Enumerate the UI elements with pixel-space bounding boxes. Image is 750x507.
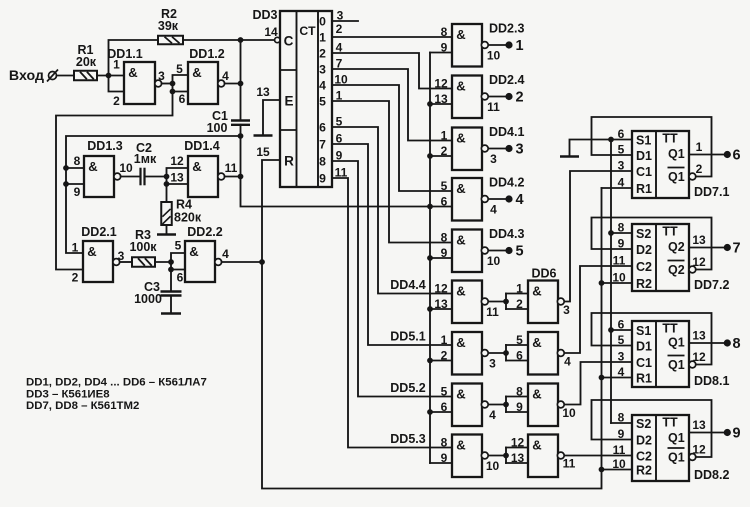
gate DD4.4 xyxy=(452,281,482,324)
svg-text:Q2: Q2 xyxy=(668,263,685,277)
wire DD1.1 out to node B xyxy=(162,83,173,85)
junction D2 pin13 xyxy=(164,181,170,187)
svg-text:&: & xyxy=(532,335,541,350)
svg-text:&: & xyxy=(192,65,201,80)
svg-text:4: 4 xyxy=(222,247,229,261)
ground below C3 xyxy=(161,312,181,315)
wire reset node down to bottom reset bus xyxy=(262,188,602,489)
svg-text:DD5.1: DD5.1 xyxy=(390,330,425,344)
svg-text:3: 3 xyxy=(158,69,165,83)
svg-text:12: 12 xyxy=(692,443,706,457)
svg-text:9: 9 xyxy=(441,451,448,465)
svg-text:6: 6 xyxy=(319,121,326,135)
rail wire junction C down to DD1.4 out xyxy=(240,136,242,177)
svg-text:5: 5 xyxy=(175,239,182,253)
clock bus branch wire xyxy=(430,360,452,362)
svg-text:2: 2 xyxy=(515,90,523,106)
svg-text:D1: D1 xyxy=(636,149,652,163)
wire DD5.2 out to DD6.3 inputs xyxy=(489,404,506,406)
wire DD6.1 output pin3 xyxy=(565,171,632,302)
node B junction pin6 xyxy=(170,89,176,95)
wire junction E down to C3 xyxy=(170,270,172,292)
svg-text:6: 6 xyxy=(732,148,740,164)
svg-text:2: 2 xyxy=(696,162,703,176)
output bubble DD4.1 xyxy=(481,145,488,152)
wire reset node up to DD3 R input xyxy=(262,160,280,262)
svg-text:DD5.3: DD5.3 xyxy=(390,432,425,446)
svg-text:DD2.1: DD2.1 xyxy=(81,225,116,239)
DD3 output 1 wire pin2 to DD2.3 pin8 xyxy=(332,36,452,38)
wire junction C left to DD1.3 input bus xyxy=(66,136,241,253)
svg-text:6: 6 xyxy=(177,271,184,285)
svg-text:DD1.2: DD1.2 xyxy=(189,47,224,61)
svg-text:9: 9 xyxy=(516,400,523,414)
wire C1 to junction C xyxy=(240,125,242,136)
svg-text:&: & xyxy=(456,387,465,402)
svg-text:&: & xyxy=(532,438,541,453)
svg-text:8: 8 xyxy=(732,336,740,352)
DD3 C input bubble pin14 xyxy=(275,37,280,42)
svg-text:9: 9 xyxy=(441,41,448,55)
svg-text:12: 12 xyxy=(170,154,184,168)
R bus junction DD8.1 xyxy=(599,375,605,381)
svg-text:1: 1 xyxy=(696,140,703,154)
clock bus junction xyxy=(427,204,433,210)
wire input to R1 xyxy=(57,75,75,77)
output node 6 xyxy=(724,151,731,158)
DD3 output 3 wire pin7 xyxy=(332,69,452,141)
svg-text:13: 13 xyxy=(692,418,706,432)
node B junction pin3/pin5 xyxy=(170,81,176,87)
wire bus to DD1.3 pin8 xyxy=(66,167,84,169)
output node 7 xyxy=(724,244,731,251)
svg-text:8: 8 xyxy=(516,385,523,399)
gate DD2.4 xyxy=(452,76,482,119)
gate DD6.4 xyxy=(528,435,558,478)
clock bus junction xyxy=(427,101,433,107)
svg-text:&: & xyxy=(456,438,465,453)
svg-text:11: 11 xyxy=(613,254,626,268)
ground below R4 xyxy=(157,233,176,236)
wire junction E to DD2.2 pin6 xyxy=(171,262,185,270)
junction D xyxy=(164,174,170,180)
svg-text:&: & xyxy=(128,65,137,80)
svg-text:11: 11 xyxy=(486,305,499,319)
svg-text:DD6: DD6 xyxy=(531,267,556,281)
wire node B down-left to DD2.1 pin2 bus xyxy=(56,92,173,270)
svg-text:C1: C1 xyxy=(636,356,652,370)
output bubble DD8.2 Qbar xyxy=(689,454,696,461)
wire node A down to DD1.1 pin2 xyxy=(109,76,125,92)
wire DD6.4 output pin11 xyxy=(565,455,632,457)
capacitor C1 100 xyxy=(231,119,250,121)
gate DD4.3 xyxy=(452,230,482,273)
svg-text:1000: 1000 xyxy=(134,292,162,306)
svg-text:10: 10 xyxy=(487,254,501,268)
gate DD4.2 xyxy=(452,178,482,221)
svg-text:DD7.2: DD7.2 xyxy=(694,278,729,292)
DD3 output 0 stub pin3 xyxy=(332,20,358,22)
wire DD1.2 out to rail xyxy=(225,83,241,85)
output node 8 xyxy=(724,339,731,346)
svg-text:13: 13 xyxy=(434,92,448,106)
flip-flop DD8.1 xyxy=(632,321,689,387)
output bubble DD6.1 xyxy=(557,298,564,305)
wire node A up to R2 xyxy=(109,40,159,76)
svg-text:3: 3 xyxy=(319,63,326,77)
DD3 output 7 wire pin6 xyxy=(332,144,452,345)
rail wire R2 node to C1 xyxy=(240,40,242,121)
gate DD5.3 xyxy=(452,435,482,478)
clock bus junction xyxy=(427,255,433,261)
svg-text:DD2.3: DD2.3 xyxy=(489,22,524,36)
gate DD5.2 xyxy=(452,384,482,427)
clock bus bottom bend to DD5.3 pin9 xyxy=(430,462,452,464)
svg-text:&: & xyxy=(189,244,198,259)
clock bus top bend to DD2.3 pin9 xyxy=(430,52,452,54)
svg-text:10: 10 xyxy=(562,406,576,420)
output bubble DD1.2 pin4 xyxy=(218,80,225,87)
svg-text:1: 1 xyxy=(72,241,79,255)
svg-text:6: 6 xyxy=(441,400,448,414)
wire DD4.2 out to node 4 xyxy=(489,198,506,200)
capacitor C2 1мк xyxy=(139,168,141,186)
feedback wire DD8.1 Qbar to D xyxy=(592,313,712,365)
node 1 xyxy=(505,41,512,48)
svg-text:13: 13 xyxy=(256,85,270,99)
svg-text:1: 1 xyxy=(515,38,523,54)
svg-text:11: 11 xyxy=(487,100,500,114)
gate DD6.1 xyxy=(528,281,558,324)
svg-text:3: 3 xyxy=(490,152,497,166)
svg-text:12: 12 xyxy=(434,282,448,296)
wire C2 to junction D xyxy=(145,176,167,178)
junction C xyxy=(238,133,244,139)
output bubble DD6.3 xyxy=(557,401,564,408)
node 2 xyxy=(505,93,512,100)
wire DD5.1 out to DD6.2 inputs xyxy=(489,352,506,354)
svg-text:11: 11 xyxy=(563,457,576,471)
svg-text:9: 9 xyxy=(319,172,326,186)
svg-text:0: 0 xyxy=(319,15,326,29)
svg-text:C2: C2 xyxy=(636,450,652,464)
svg-text:4: 4 xyxy=(336,41,343,55)
svg-text:8: 8 xyxy=(441,25,448,39)
wire bus to DD1.3 pin9 xyxy=(66,183,84,185)
output node 9 xyxy=(724,429,731,436)
svg-text:5: 5 xyxy=(336,115,343,129)
svg-text:5: 5 xyxy=(516,333,523,347)
svg-text:10: 10 xyxy=(486,459,500,473)
svg-text:6: 6 xyxy=(516,349,523,363)
svg-text:Q2: Q2 xyxy=(668,240,685,254)
DD3 output 9 wire pin11 xyxy=(332,178,452,448)
svg-text:13: 13 xyxy=(511,451,525,465)
wire rail to DD3 C input xyxy=(241,39,275,41)
svg-text:6: 6 xyxy=(179,92,186,106)
svg-text:1: 1 xyxy=(441,333,448,347)
clock bus branch wire xyxy=(430,411,452,413)
svg-text:7: 7 xyxy=(319,138,326,152)
wire node B to DD1.2 pin5 xyxy=(173,75,189,84)
feedback wire DD8.2 Qbar to D xyxy=(592,400,712,457)
svg-text:11: 11 xyxy=(225,161,238,175)
svg-text:7: 7 xyxy=(732,241,740,257)
output bubble DD1.1 pin3 xyxy=(155,80,162,87)
svg-text:Q1: Q1 xyxy=(668,358,685,372)
wire C3 to ground xyxy=(170,296,172,314)
svg-text:5: 5 xyxy=(441,385,448,399)
svg-text:5: 5 xyxy=(441,179,448,193)
svg-text:Вход: Вход xyxy=(9,68,44,84)
flip-flop DD7.2 xyxy=(632,224,689,291)
svg-text:TT: TT xyxy=(662,132,678,146)
clock bus vertical xyxy=(429,53,431,464)
wire S bus to DD8.2 S2 xyxy=(611,422,632,424)
reset node junction xyxy=(259,259,265,265)
wire DD1.4 out to rail xyxy=(225,176,241,178)
svg-text:1: 1 xyxy=(319,31,326,45)
DD3 output 5 wire pin1 xyxy=(332,101,452,243)
wire R bus to DD7.2 R2 xyxy=(602,282,633,284)
svg-text:DD1.4: DD1.4 xyxy=(184,139,219,153)
junction R2/rail xyxy=(238,37,244,43)
svg-text:C1: C1 xyxy=(636,165,652,179)
svg-text:DD4.4: DD4.4 xyxy=(390,278,425,292)
node 4 xyxy=(505,195,512,202)
svg-text:4: 4 xyxy=(515,192,523,208)
svg-text:3: 3 xyxy=(337,9,344,23)
node 3 xyxy=(505,145,512,152)
output bubble DD6.2 xyxy=(557,350,564,357)
wire DD5.3 out to DD6.4 inputs xyxy=(489,455,506,457)
svg-text:13: 13 xyxy=(434,297,448,311)
svg-text:11: 11 xyxy=(613,443,626,457)
output bubble DD2.2 pin4 xyxy=(215,259,222,266)
svg-text:4: 4 xyxy=(564,355,571,369)
svg-text:4: 4 xyxy=(319,79,326,93)
svg-text:&: & xyxy=(456,27,465,42)
svg-text:14: 14 xyxy=(264,25,278,39)
svg-text:100к: 100к xyxy=(129,240,157,254)
svg-text:9: 9 xyxy=(336,149,343,163)
svg-text:R: R xyxy=(284,154,294,169)
wire DD8.2 Q output xyxy=(689,432,724,434)
svg-text:9: 9 xyxy=(74,185,81,199)
output bubble DD2.4 xyxy=(481,93,488,100)
svg-text:R2: R2 xyxy=(636,464,652,478)
svg-text:&: & xyxy=(456,181,465,196)
svg-text:9: 9 xyxy=(441,246,448,260)
clock bus branch wire xyxy=(430,257,452,259)
output bubble DD7.2 Qbar xyxy=(689,266,696,273)
svg-text:DD8.1: DD8.1 xyxy=(694,374,729,388)
wire junction D to DD1.4 pin12 xyxy=(167,168,189,177)
svg-text:6: 6 xyxy=(336,132,343,146)
wire DD6.3 output pin10 xyxy=(565,362,632,405)
svg-text:13: 13 xyxy=(692,233,706,247)
svg-text:TT: TT xyxy=(662,225,678,239)
svg-text:&: & xyxy=(532,387,541,402)
svg-text:&: & xyxy=(456,233,465,248)
svg-text:8: 8 xyxy=(441,436,448,450)
svg-text:&: & xyxy=(88,159,97,174)
svg-text:R4: R4 xyxy=(176,198,192,212)
svg-text:&: & xyxy=(456,335,465,350)
junction DD1.3 pin9 xyxy=(63,181,69,187)
svg-text:D2: D2 xyxy=(636,243,652,257)
svg-text:5: 5 xyxy=(515,244,523,260)
svg-text:3: 3 xyxy=(489,357,496,371)
svg-text:DD3: DD3 xyxy=(252,8,277,22)
svg-text:4: 4 xyxy=(490,203,497,217)
R bus junction DD8.2 xyxy=(599,467,605,473)
svg-text:1: 1 xyxy=(336,89,343,103)
svg-text:3: 3 xyxy=(563,303,570,317)
svg-text:2: 2 xyxy=(336,22,343,36)
output bubble DD2.1 pin3 xyxy=(113,259,120,266)
svg-text:C: C xyxy=(284,34,294,49)
svg-text:Q1: Q1 xyxy=(668,336,685,350)
junction rail pin4 xyxy=(238,81,244,87)
svg-text:Q1: Q1 xyxy=(668,451,685,465)
wire R bus to DD8.1 R1 xyxy=(602,377,633,379)
svg-text:C2: C2 xyxy=(636,260,652,274)
wire DD8.1 Q output xyxy=(689,342,724,344)
wire R4 to ground xyxy=(166,225,168,234)
svg-text:S2: S2 xyxy=(636,417,651,431)
svg-text:7: 7 xyxy=(336,57,343,71)
svg-text:&: & xyxy=(532,284,541,299)
output bubble DD7.1 Qbar xyxy=(689,173,696,180)
wire junction down to R4 xyxy=(166,184,168,202)
svg-text:39к: 39к xyxy=(158,19,179,33)
gate DD2.3 xyxy=(452,24,482,67)
output bubble DD1.4 pin11 xyxy=(218,173,225,180)
output bubble DD1.3 pin10 xyxy=(114,173,121,180)
wire R1 to node A xyxy=(97,75,124,77)
resistor R1 20к xyxy=(74,71,97,81)
flip-flop DD7.1 xyxy=(632,131,689,198)
clock bus junction xyxy=(427,153,433,159)
svg-text:Q1: Q1 xyxy=(668,170,685,184)
svg-text:8: 8 xyxy=(319,155,326,169)
svg-text:R1: R1 xyxy=(636,182,652,196)
svg-text:S2: S2 xyxy=(636,227,651,241)
svg-text:Q1: Q1 xyxy=(668,147,685,161)
DD3 output 8 wire pin9 xyxy=(332,161,452,397)
svg-text:20к: 20к xyxy=(76,55,97,69)
svg-text:DD4.2: DD4.2 xyxy=(489,176,524,190)
wire R2 to rail xyxy=(183,39,241,41)
junction E pin6 xyxy=(168,267,174,273)
output bubble DD4.4 xyxy=(481,298,488,305)
R bus top bend to DD7.1 R1 xyxy=(602,187,633,189)
svg-text:10: 10 xyxy=(334,73,348,87)
output bubble DD4.3 xyxy=(481,247,488,254)
svg-text:&: & xyxy=(87,244,96,259)
svg-text:&: & xyxy=(456,284,465,299)
junction DD1.3 pin8 xyxy=(63,165,69,171)
svg-text:12: 12 xyxy=(692,255,706,269)
svg-text:2: 2 xyxy=(319,47,326,61)
svg-text:DD2.2: DD2.2 xyxy=(187,225,222,239)
svg-text:DD7, DD8 – К561ТМ2: DD7, DD8 – К561ТМ2 xyxy=(26,400,139,412)
svg-text:S1: S1 xyxy=(636,324,651,338)
feedback wire DD7.2 Qbar to D xyxy=(592,218,712,270)
svg-text:D2: D2 xyxy=(636,434,652,448)
svg-text:1мк: 1мк xyxy=(134,152,157,166)
svg-text:2: 2 xyxy=(441,349,448,363)
svg-text:13: 13 xyxy=(692,329,706,343)
S bus junction DD7.1 xyxy=(608,137,614,143)
clock bus branch wire xyxy=(430,155,452,157)
clock bus branch wire xyxy=(430,308,452,310)
node A junction xyxy=(106,73,112,79)
clock bus branch wire xyxy=(430,206,452,208)
svg-text:11: 11 xyxy=(335,166,348,180)
svg-text:E: E xyxy=(284,94,293,109)
svg-text:2: 2 xyxy=(72,271,79,285)
ground for S inputs xyxy=(560,155,579,158)
wire DD6.2 output pin4 xyxy=(565,266,632,353)
svg-text:820к: 820к xyxy=(174,211,202,225)
gate DD4.1 xyxy=(452,128,482,171)
svg-text:TT: TT xyxy=(662,322,678,336)
wire DD2.1 out to R3 xyxy=(120,261,132,263)
wire DD2.2 out to reset node xyxy=(222,261,262,263)
svg-text:DD4.3: DD4.3 xyxy=(489,227,524,241)
clock bus junction xyxy=(427,358,433,364)
svg-text:DD8.2: DD8.2 xyxy=(694,468,729,482)
gate DD6.2 xyxy=(528,332,558,375)
wire DD2.3 out to node 1 xyxy=(489,44,506,46)
output bubble DD8.1 Qbar xyxy=(689,361,696,368)
clock bus junction xyxy=(427,409,433,415)
feedback wire DD7.1 Qbar to D xyxy=(592,117,712,177)
svg-text:&: & xyxy=(192,159,201,174)
svg-text:S1: S1 xyxy=(636,134,651,148)
gate DD5.1 xyxy=(452,332,482,375)
wire DD4.3 out to node 5 xyxy=(489,250,506,252)
S bus vertical xyxy=(610,140,612,424)
ground at DD3 E input xyxy=(254,134,273,137)
junction E xyxy=(168,259,174,265)
svg-text:1: 1 xyxy=(441,129,448,143)
svg-text:DD3 – К561ИЕ8: DD3 – К561ИЕ8 xyxy=(26,389,110,401)
wire DD7.1 Q output xyxy=(689,154,724,156)
junction rail DD1.4 out xyxy=(238,174,244,180)
output bubble DD4.2 xyxy=(481,196,488,203)
svg-text:3: 3 xyxy=(618,350,625,364)
wire DD4.4 out to DD6.1 inputs xyxy=(489,301,506,303)
R bus junction DD7.2 xyxy=(599,280,605,286)
svg-text:1: 1 xyxy=(113,58,120,72)
output bubble DD5.2 xyxy=(481,401,488,408)
wire DD7.2 Q output xyxy=(689,247,724,249)
svg-text:2: 2 xyxy=(516,297,523,311)
svg-text:8: 8 xyxy=(74,154,81,168)
S bus junction DD8.1 xyxy=(608,327,614,333)
wire ground to DD7.1 S1 xyxy=(570,140,633,156)
clock bus junction xyxy=(427,306,433,312)
svg-text:DD4.1: DD4.1 xyxy=(489,125,524,139)
wire junction D to DD1.4 pin13 xyxy=(167,177,189,185)
svg-text:10: 10 xyxy=(119,161,133,175)
svg-text:2: 2 xyxy=(441,144,448,158)
svg-text:&: & xyxy=(456,131,465,146)
svg-text:&: & xyxy=(456,79,465,94)
